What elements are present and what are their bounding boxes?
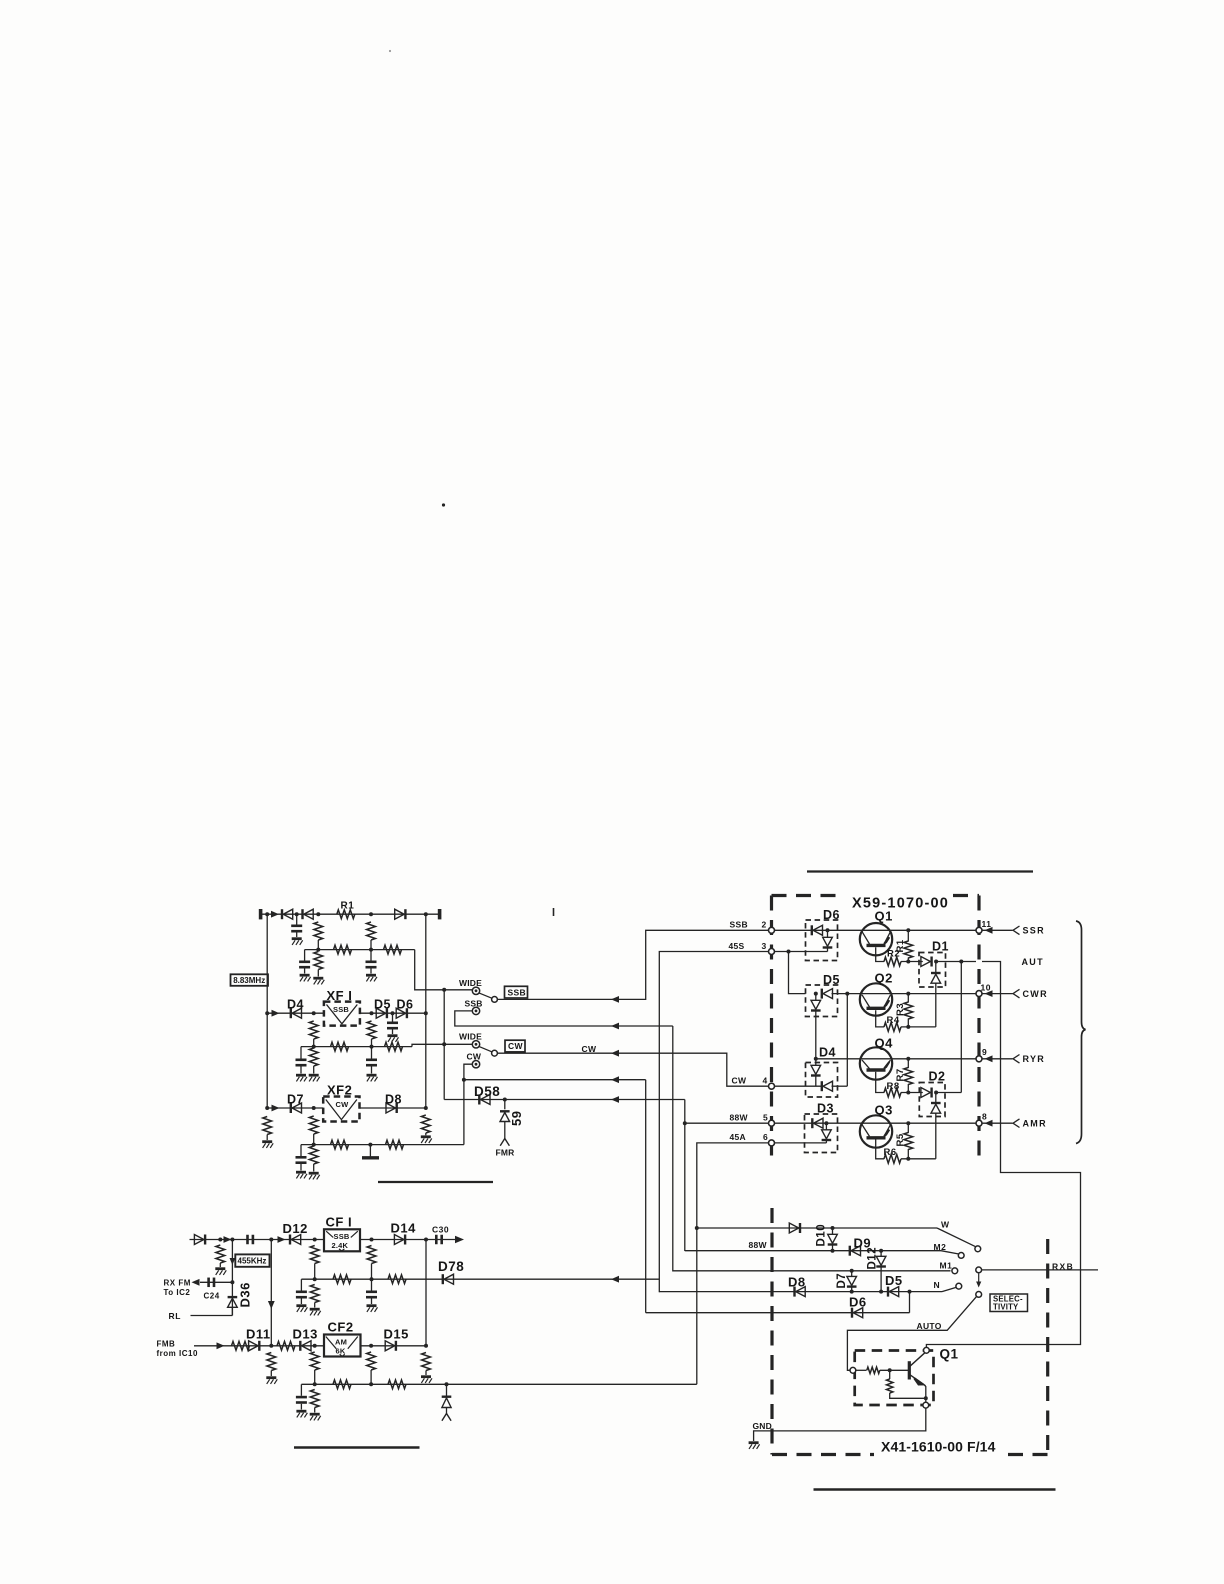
svg-text:D6: D6 [849,1295,867,1310]
wire: right bus from top rail down to XF2 output [425,914,427,1108]
wire [827,948,829,952]
svg-text:M1: M1 [940,1260,953,1270]
resistor below row2 [314,952,323,970]
node: R7/R8 junction [906,1091,910,1095]
resistor R8 [884,1088,901,1097]
svg-text:5: 5 [763,1113,768,1123]
svg-text:SSB: SSB [333,1005,349,1014]
switch pole circle (CW wide) [492,1050,498,1056]
wire [370,940,372,950]
diode D15 [385,1341,396,1351]
node: D7 top junction [850,1269,854,1273]
pin 4 of X59 [769,1083,775,1089]
diode D6b vertical [827,930,829,937]
node: 88W pin5 branch [683,1121,687,1125]
wire: W diagonal to contact [937,1228,976,1247]
wire: pin4 line into D4 [775,1085,822,1087]
capacitor below row3 [366,1060,377,1065]
boxed label SSB [505,986,528,998]
svg-text:AM: AM [335,1337,347,1346]
wire: V1 branch (455KHz detector) [231,1240,233,1316]
wire: emitter to GND [754,1408,926,1441]
svg-text:3: 3 [762,941,767,951]
wire: mid row (D78 / 45S return) [301,1278,659,1280]
switch contact M1 [952,1268,958,1274]
ceramic filter CF1 box [324,1229,360,1251]
capacitor at row3 left end [296,1060,307,1065]
wire: Q1 emitter [876,947,885,961]
diode D6 [396,1008,407,1018]
svg-text:D13: D13 [293,1326,318,1341]
node: D12 bottom junction [879,1290,883,1294]
X59 box left dashed edge [770,896,773,1161]
wire [425,1371,427,1376]
transistor Q1 of X41 dashed box [855,1351,934,1406]
svg-text:CW: CW [732,1076,747,1086]
wire: pin2 rail through D6 to Q1 and pin 11 [775,929,977,931]
pin 9 of X59 [976,1056,982,1062]
transistor Q1 [860,923,892,955]
wire: M1 line [673,1270,951,1272]
wire: Q3 emitter [876,1140,885,1159]
wire: pin8 to AMR [982,1122,1013,1124]
diode D12 [290,1235,301,1245]
svg-text:CW: CW [467,1052,482,1062]
X41 box right dashed edge [1046,1239,1049,1455]
chevron SSR [1013,926,1020,935]
node: top rail junction at C [295,912,299,916]
wire: XF1 output row [360,1012,426,1014]
X41 box bottom dashed edge left [772,1453,874,1456]
terminal: top rail right end bar [438,909,442,919]
node: R3 top on pin10 rail [906,992,910,996]
svg-text:R6: R6 [884,1147,897,1158]
svg-text:CW: CW [508,1041,523,1051]
wire: SSB narrow contact to M1 line corner [455,1011,673,1026]
node: top rail junction right R [369,912,373,916]
wire: D2 junction up to pin1 net [936,1092,961,1094]
node: D4 junction on RYR rail [814,1057,818,1061]
node: D10 bottom junction [831,1249,835,1253]
wire [446,1408,448,1414]
svg-text:8.83MHz: 8.83MHz [233,976,265,985]
svg-text:6: 6 [763,1132,768,1142]
svg-text:D6: D6 [823,908,840,922]
box label 455KHz [235,1254,269,1266]
wire: D1b down to R4 line [935,983,937,1027]
svg-text:9: 9 [982,1047,987,1057]
diode D12 vertical M2 to N [880,1251,882,1257]
wire: XF2 input row [267,1107,323,1109]
node: row4 junction left [312,1143,316,1147]
wire: N diagonal to contact [942,1287,957,1291]
capacitor at bottom row left end [296,1397,307,1402]
wire: D58 to X41 M2 vertical [684,1100,686,1252]
diode D4 [291,1008,302,1018]
resistor bottom row right [388,1380,406,1389]
diode D5 (X41) [888,1287,899,1297]
svg-text:D58: D58 [474,1084,500,1099]
faint speck top [389,50,391,52]
diode D14 [394,1235,405,1245]
svg-text:88W: 88W [730,1113,749,1123]
svg-text:CWR: CWR [1023,989,1048,999]
diode D6a horizontal [812,925,823,935]
resistor: left bus load below XF2 [263,1117,272,1135]
resistor R3 [904,1002,913,1019]
resistor in row3 left [331,1042,349,1051]
svg-text:Q3: Q3 [875,1103,893,1118]
transistor Q2 [860,983,892,1015]
node: 45S branch to D5 [787,950,791,954]
node: branch to FM fork [445,1382,449,1386]
node: CF2 output junction [369,1344,373,1348]
X41 box left dashed edge [770,1208,773,1455]
ground [421,1137,432,1143]
node: XF2 output to right bus [424,1106,428,1110]
wire [270,1371,272,1377]
crystal filter XF2 dashed box [323,1097,359,1122]
wire: D1 junction to pin1 [936,961,976,963]
stray dot on page [442,503,445,506]
pin 2 of X59 [769,927,775,933]
wire [313,1066,315,1074]
wire: stub to cap below row3 [371,1047,373,1059]
wire [371,1067,373,1074]
arrow on SSB wide line [611,996,619,1003]
svg-text:R5: R5 [895,1133,906,1146]
X59 box right dashed edge [977,896,980,1161]
resistor below row4 [309,1146,318,1164]
diode (unlabeled) top rail #3 [395,909,406,919]
wire: Q1 emitter down [924,1385,926,1403]
wire: SSB-narrow to X41 M1 vertical [672,1026,674,1272]
node: top-rail / right-bus junction [424,912,428,916]
svg-text:Q2: Q2 [875,971,893,986]
ground [296,1172,307,1178]
resistor in row2 right [384,945,402,954]
wire: C24 line [200,1281,232,1283]
wire: V2 vertical (FM broad line) [270,1240,272,1346]
svg-text:D12: D12 [283,1221,308,1236]
node: left bus at XF1 input [265,1011,269,1015]
arrow before D12 [278,1236,286,1243]
resistor below FMB junction [267,1353,276,1371]
node: D12 output junction [313,1238,317,1242]
node: WIDE SSB line junction to D58 net [442,988,446,992]
wire: bottom row [301,1383,696,1385]
svg-text:D7: D7 [287,1093,304,1107]
ground [292,939,303,945]
ground [421,1377,432,1383]
svg-text:D36: D36 [238,1282,253,1307]
svg-text:C30: C30 [432,1225,449,1235]
node: D14/C30 junction [424,1238,428,1242]
wire: Q1 base network [856,1369,867,1371]
svg-text:Q1: Q1 [940,1347,959,1362]
resistor: right bus load below XF2 [421,1115,430,1133]
wire: R4 junction to D1b vertical [901,1026,936,1028]
arrow on CF1 row [224,1236,232,1243]
wire [313,1039,315,1047]
wire [889,1370,891,1379]
svg-text:D8: D8 [788,1275,806,1290]
wire: V3 vertical (CF1 out to CF2 out) [425,1240,427,1346]
ground [262,1142,273,1148]
resistor in row2 left [334,945,352,954]
svg-text:D2: D2 [929,1070,946,1084]
node: D3 junction [824,1121,828,1125]
svg-text:D6: D6 [397,998,414,1012]
resistor XF2 input shunt [309,1116,318,1134]
wire: RXB line [982,1269,1098,1271]
wire: pin10 rail (Q2 collector) [860,993,976,995]
node: W line branch [695,1226,699,1230]
wire: pin6 line under D3 [775,1142,827,1144]
wire: row2 left end down to cap [304,950,306,961]
wire: pin9 to RYR [982,1058,1013,1060]
node: D1 junction [934,960,938,964]
pin 6 of X59 [769,1140,775,1146]
arrow on FMB row [217,1342,225,1349]
wire: pin1 AUT routing to X41 Q1 collector [926,962,1080,1348]
svg-text:AMR: AMR [1023,1118,1047,1128]
wire: mid row left end cap [300,1279,302,1290]
resistor Q1 base series [867,1367,880,1373]
node: XF1 input junction [312,1011,316,1015]
rule: underline below X41 box [814,1488,1056,1490]
svg-text:FMB: FMB [157,1339,176,1348]
svg-text:D10: D10 [816,1224,828,1247]
diode D3b vertical [825,1123,827,1130]
node: branch to FMB row [269,1238,273,1242]
Q1 base terminal circle [850,1367,856,1373]
wire: row2 right end down to WIDE(SSB) contact line [415,950,473,990]
svg-text:RL: RL [169,1311,182,1321]
wire: R8 junction into D2 [901,1092,923,1094]
svg-text:SSB: SSB [730,920,748,930]
switch contact SSB (narrow) [472,1007,479,1014]
wire [907,958,909,962]
svg-text:8: 8 [982,1112,987,1122]
chevron RYR [1013,1055,1020,1064]
ground [310,1414,321,1420]
node: D13 output junction [313,1344,317,1348]
ceramic filter CF2 box [324,1335,361,1357]
svg-text:RXB: RXB [1052,1261,1074,1271]
node: CW narrow branch junction [462,1078,466,1082]
svg-text:X41-1610-00 F/14: X41-1610-00 F/14 [881,1438,996,1454]
svg-text:C24: C24 [204,1291,220,1300]
svg-text:AUT: AUT [1022,957,1044,967]
wire: pin11 to SSR [982,929,1013,931]
diode D11 [249,1341,260,1351]
diode pair D2 dashed box [919,1083,945,1117]
wire: pin3 line [775,951,828,953]
svg-text:D4: D4 [819,1046,836,1060]
svg-text:D15: D15 [384,1326,409,1341]
svg-text:AUTO: AUTO [917,1321,942,1331]
svg-text:To IC2: To IC2 [164,1288,191,1297]
ground [266,1378,277,1384]
wire [314,1370,316,1384]
switch pole circle (SSB wide) [492,997,498,1003]
capacitor at row4 left end [296,1157,307,1162]
wire: Q1 collector to top circle [925,1352,927,1354]
svg-text:CF2: CF2 [328,1320,354,1335]
diode D5b vertical [815,994,817,1001]
switch pole lower (AUTO) [976,1292,982,1298]
ground [309,1075,320,1081]
resistor Q1 base shunt [887,1379,893,1393]
ground [313,978,324,984]
resistor in row4 right [386,1140,404,1149]
wire [300,1164,302,1171]
wire: row3 left end down to cap [300,1047,302,1059]
switch contact W [975,1246,981,1252]
chevron CWR [1013,989,1020,998]
resistor vertical (top rail to row2) right [367,922,376,940]
svg-text:Q4: Q4 [875,1035,894,1050]
wire [880,1267,882,1292]
resistor mid row right [388,1275,406,1284]
resistor XF1 output shunt [367,1021,376,1039]
wire: FMB row (right of CF2 box) [361,1345,427,1347]
ground [215,1269,226,1275]
arrow: CF1 output [455,1236,464,1244]
switch motion arrow [978,1274,980,1284]
wire [370,1370,372,1384]
node: D58 output junction [503,1098,507,1102]
wire: row3 horizontal (below XF1) [301,1046,412,1048]
capacitor below mid row [366,1292,377,1297]
node: top rail junction at R to row2 [316,912,320,916]
diode pair D1 dashed box [919,953,946,988]
resistor D13 junction to bottom row [310,1352,319,1370]
diode D78 [443,1274,454,1284]
switch contact WIDE (SSB side) [472,987,479,994]
arrow into pin8 [985,1120,993,1127]
wire [317,970,319,977]
ground [296,1075,307,1081]
wire: XF1 input row [267,1012,324,1014]
svg-text:D4: D4 [287,998,304,1012]
arrow down on V1 [230,1258,236,1265]
wire [304,969,306,974]
diode pair D4 dashed box (X59) [806,1063,838,1098]
wire: M2 diagonal to contact [941,1251,959,1254]
wire [392,1030,394,1035]
wire: 45S vertical (pin3 to D78/N lines) [659,952,768,1293]
svg-text:D8: D8 [385,1093,402,1107]
svg-text:D12: D12 [867,1247,879,1270]
diode D13 [300,1341,311,1351]
svg-text:RX FM: RX FM [164,1278,191,1287]
wire [314,1303,316,1308]
wire: CF1 top row (left of CF1 box) [190,1239,325,1241]
node: XF1 output junction [370,1011,374,1015]
wire: pin10 to CWR [982,993,1013,995]
node: R5 top on pin8 rail [906,1121,910,1125]
node: CF1 output junction [370,1238,374,1242]
svg-text:R7: R7 [895,1068,906,1081]
svg-text:W: W [941,1219,950,1229]
svg-text:SSR: SSR [1023,926,1045,936]
wire [851,1287,853,1292]
node: D2 junction [934,1091,938,1095]
wire [907,994,909,1003]
node: row2 junction right [369,948,373,952]
diode D7 [291,1103,302,1113]
switch lever WIDE->SSB [479,993,492,998]
wire [371,1279,373,1290]
wire [300,1404,302,1410]
svg-text:SSB: SSB [508,987,526,997]
node: between D5 and D6 [391,1011,395,1015]
node: XF1 output to right bus [424,1011,428,1015]
wire: left bus from top rail down to XF2 row [266,914,268,1108]
terminal: top rail left end bar [259,909,263,919]
svg-text:SSB: SSB [465,998,483,1008]
diode 59 pointing up [500,1111,510,1121]
wire: Q2 emitter [876,1010,885,1027]
arrow on D78 line [611,1276,619,1283]
wire: RL line [191,1315,233,1317]
diode D6 (X41) [852,1308,863,1318]
wire [907,1019,909,1027]
svg-text:2: 2 [762,920,767,930]
diode (unlabeled) before CF1 [194,1235,205,1245]
diode D2b vertical [935,1093,937,1104]
wire [907,1084,909,1093]
svg-text:D7: D7 [836,1273,848,1289]
wire: pin5 rail through D3 to Q3 and pin 8 [775,1122,977,1124]
diode D5a horizontal [822,989,833,999]
wire [825,1140,827,1143]
Q1 transistor symbol (X41) [908,1361,911,1379]
capacitor C24 [209,1278,214,1288]
ground [366,975,377,981]
resistor below V3 [422,1353,431,1371]
node: pin1 net branch [959,960,963,964]
wire: cap to ground [296,933,298,938]
svg-text:D14: D14 [391,1221,417,1236]
svg-text:D5: D5 [885,1273,903,1288]
svg-text:R1: R1 [341,901,355,912]
wire [504,1100,506,1110]
node: C24 junction [230,1280,234,1284]
svg-text:10: 10 [981,983,991,993]
arrow into D7 [272,1105,280,1112]
wire: Q4 emitter [876,1072,885,1093]
wire: CW-narrow to X41 D6-line vertical [645,1080,647,1313]
chevron AMR [1013,1119,1020,1128]
wire: 45A / W vertical (pin6 down to CF2 row) [697,1143,769,1384]
ground [300,975,311,981]
svg-text:GND: GND [753,1421,773,1431]
resistor CF1 output to mid row [367,1246,376,1264]
node: row3 junction right [370,1045,374,1049]
wire: X59 pin5 88W line [685,1122,769,1124]
wire [266,1135,268,1141]
wire: bottom row left end cap [300,1384,302,1396]
svg-text:11: 11 [982,919,992,929]
arrow down on V2 [268,1301,275,1309]
wire: row4 left end down to cap [300,1145,302,1156]
wire: CW narrow branch to X41 D6-line vertical [464,1079,646,1081]
svg-text:WIDE: WIDE [459,978,482,988]
pin 11 of X59 [976,927,982,933]
